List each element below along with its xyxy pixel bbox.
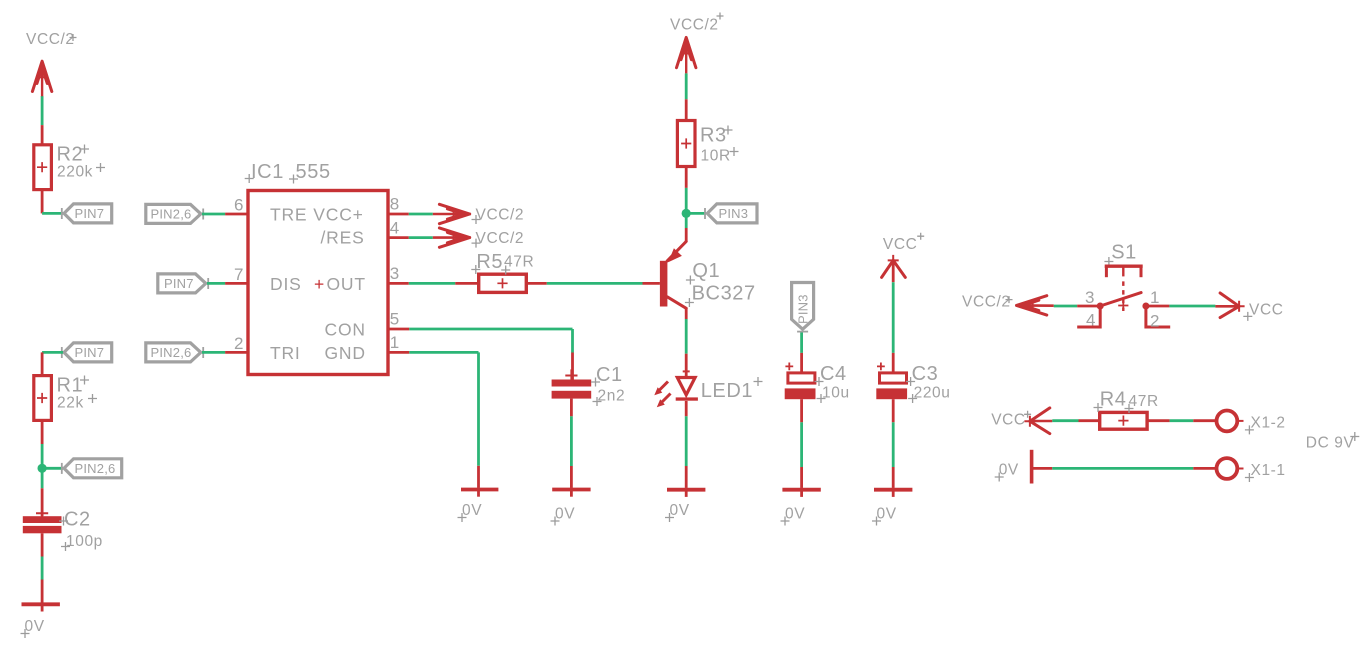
svg-text:0V: 0V <box>462 502 482 519</box>
wire R3 to Q1 with junction <box>685 167 688 242</box>
wire VCC arrow to R4 <box>1030 419 1100 422</box>
svg-text:PIN3: PIN3 <box>796 294 811 324</box>
wire pin 5 (CON) to C1 <box>409 329 572 380</box>
junction node PIN2,6 <box>38 464 47 473</box>
svg-text:VCC/2: VCC/2 <box>670 17 719 34</box>
svg-text:C3: C3 <box>912 363 939 385</box>
svg-text:8: 8 <box>390 195 400 214</box>
svg-text:220k: 220k <box>57 164 93 181</box>
wire C4 to ground <box>800 399 803 488</box>
IC1 555 body <box>248 191 388 375</box>
svg-text:3: 3 <box>390 264 400 283</box>
svg-text:0V: 0V <box>670 502 690 519</box>
resistor R3 <box>677 121 738 167</box>
svg-text:VCC/2: VCC/2 <box>26 31 75 48</box>
svg-text:1: 1 <box>390 333 400 352</box>
resistor R2 <box>34 144 105 190</box>
label PIN2,6 (net tag at pin 2) <box>146 343 203 362</box>
svg-text:PIN3: PIN3 <box>719 206 749 221</box>
capacitor C1 <box>552 364 626 406</box>
svg-text:10u: 10u <box>822 385 850 402</box>
wire VCC/2 to R2 <box>41 96 44 145</box>
svg-text:X1-2: X1-2 <box>1251 414 1286 431</box>
svg-text:22k: 22k <box>57 395 84 412</box>
svg-text:VCC/2: VCC/2 <box>476 230 525 247</box>
switch S1 name <box>1104 242 1136 266</box>
svg-text:R4: R4 <box>1100 389 1127 411</box>
pin 8 stub <box>388 195 409 215</box>
wire C2 to ground <box>41 533 44 602</box>
supply VCC arrow (left of R4) <box>991 408 1050 434</box>
label PIN2,6 (net tag, at junction) <box>62 459 122 478</box>
capacitor C2 <box>23 507 103 551</box>
ground 0V (under pin 1) <box>458 488 499 522</box>
label PIN3 (net tag at junction) <box>705 204 757 223</box>
wire tag to pin 6 <box>202 213 225 216</box>
pin 5 stub <box>388 310 409 330</box>
capacitor C4 (polarized) <box>785 363 850 404</box>
svg-text:CON: CON <box>325 319 366 339</box>
label PIN7 (net tag, top-left) <box>62 204 112 223</box>
supply VCC/2 arrow (pin 4) <box>439 228 524 248</box>
ground 0V (under C3) <box>872 488 912 526</box>
svg-text:PIN7: PIN7 <box>75 206 105 221</box>
wire R5 to Q1 base <box>526 282 660 285</box>
svg-text:VCC+: VCC+ <box>313 204 363 224</box>
svg-text:OUT: OUT <box>327 274 366 294</box>
svg-text:Q1: Q1 <box>692 260 720 282</box>
svg-text:6: 6 <box>234 196 244 215</box>
svg-text:4: 4 <box>1086 311 1096 330</box>
wire R1 to C2 with junction <box>41 420 44 516</box>
svg-text:BC327: BC327 <box>692 283 756 305</box>
svg-text:0V: 0V <box>555 506 575 523</box>
svg-text:PIN2,6: PIN2,6 <box>75 461 116 476</box>
pin 1 stub <box>388 333 409 352</box>
svg-text:100p: 100p <box>66 533 103 550</box>
supply 0V (left of X1-1 wire) <box>995 450 1032 484</box>
svg-text:PIN2,6: PIN2,6 <box>151 207 192 222</box>
svg-text:+: + <box>314 274 325 294</box>
svg-text:5: 5 <box>390 310 400 329</box>
svg-text:47R: 47R <box>504 254 534 271</box>
wire pin 8 to VCC/2 arrow <box>409 213 471 216</box>
connector X1 label DC 9V <box>1306 432 1360 452</box>
svg-text:VCC: VCC <box>1249 302 1284 319</box>
svg-text:X1-1: X1-1 <box>1251 462 1286 479</box>
svg-text:C2: C2 <box>64 509 91 531</box>
svg-text:0V: 0V <box>877 506 897 523</box>
svg-text:VCC/2: VCC/2 <box>476 207 525 224</box>
svg-text:DIS: DIS <box>270 274 302 294</box>
svg-text:C4: C4 <box>820 363 847 385</box>
svg-text:/RES: /RES <box>321 227 365 247</box>
wire R4 to X1-2 pad <box>1147 419 1216 422</box>
wire R2 to PIN7 tag <box>42 190 63 214</box>
svg-text:PIN7: PIN7 <box>164 276 194 291</box>
ground 0V (left column) <box>21 603 60 639</box>
capacitor C3 (polarized) <box>876 363 950 404</box>
svg-text:10R: 10R <box>701 148 731 165</box>
label PIN3 (vertical net tag above C4) <box>792 283 814 332</box>
svg-text:R1: R1 <box>57 375 84 397</box>
label PIN7 (net tag at pin 7) <box>158 274 208 293</box>
svg-text:VCC/2: VCC/2 <box>962 294 1011 311</box>
supply VCC/2 top-left <box>26 31 77 97</box>
svg-text:47R: 47R <box>1129 393 1159 410</box>
svg-text:4: 4 <box>390 219 400 238</box>
svg-text:2: 2 <box>1150 312 1160 331</box>
svg-text:VCC: VCC <box>883 236 918 253</box>
svg-text:TRE: TRE <box>270 204 307 224</box>
wire C1 to ground <box>570 399 573 488</box>
wire junction to PIN3 tag <box>686 212 706 215</box>
wire S1 pin 1 to VCC arrow <box>1146 305 1239 308</box>
svg-text:GND: GND <box>325 343 366 363</box>
svg-text:555: 555 <box>296 161 331 183</box>
op-amp/timer IC1 555 title <box>245 161 331 184</box>
supply VCC arrow (right of S1) <box>1220 293 1283 321</box>
svg-text:S1: S1 <box>1111 242 1137 264</box>
wire VCC/2 to R3 <box>685 73 688 120</box>
wire pin 3 to R5 <box>409 282 479 285</box>
wire Q1 collector to LED1 <box>685 308 688 380</box>
wire LED1 to ground <box>685 401 688 488</box>
svg-text:220u: 220u <box>914 385 951 402</box>
wire pin 4 to VCC/2 arrow <box>409 236 471 239</box>
supply VCC (above C3) <box>882 233 925 278</box>
svg-text:PIN7: PIN7 <box>75 345 105 360</box>
svg-text:C1: C1 <box>596 364 623 386</box>
ground 0V (under C4) <box>781 488 821 526</box>
wire S1 pin 3 to VCC/2 arrow <box>1054 305 1097 308</box>
svg-text:TRI: TRI <box>270 343 301 363</box>
svg-text:2n2: 2n2 <box>598 388 626 405</box>
transistor Q1 BC327 (PNP) <box>660 241 756 308</box>
wire tag to pin 2 <box>202 351 225 354</box>
svg-text:PIN2,6: PIN2,6 <box>151 345 192 360</box>
supply VCC/2 (above R3) <box>670 13 724 74</box>
svg-text:2: 2 <box>234 334 244 353</box>
resistor R4 <box>1094 389 1159 430</box>
wire PIN3 tag to C4 <box>800 333 803 373</box>
svg-text:0V: 0V <box>785 506 805 523</box>
label PIN2,6 (net tag at pin 6) <box>146 204 203 223</box>
pin 7 stub <box>225 265 248 284</box>
wire PIN7 tag to R1 <box>42 352 63 375</box>
pin 3 stub <box>388 264 409 283</box>
wire junction to PIN2,6 tag <box>42 467 63 470</box>
svg-text:1: 1 <box>1150 288 1160 307</box>
pin 2 stub <box>225 334 248 353</box>
wire tag to pin 7 <box>207 282 225 285</box>
svg-text:0V: 0V <box>25 618 45 635</box>
svg-text:IC1: IC1 <box>251 161 284 183</box>
wire C3 to ground <box>892 399 895 488</box>
label PIN7 (net tag, at R1 top) <box>62 343 112 362</box>
svg-text:LED1: LED1 <box>701 380 753 402</box>
ground 0V (under LED1) <box>665 488 705 522</box>
supply VCC/2 arrow (pin 8) <box>439 204 524 224</box>
switch S1 body <box>1077 266 1170 330</box>
svg-text:R5: R5 <box>476 251 503 273</box>
svg-text:R3: R3 <box>700 125 727 147</box>
connector pad X1-2 <box>1217 411 1286 435</box>
wire pin 1 (GND) to ground <box>409 352 478 487</box>
svg-text:3: 3 <box>1085 288 1095 307</box>
junction node PIN3 <box>682 209 691 218</box>
wire 0V to X1-1 pad <box>1032 467 1217 470</box>
svg-text:R2: R2 <box>57 144 84 166</box>
svg-text:VCC: VCC <box>991 412 1026 429</box>
resistor R1 <box>34 375 97 421</box>
svg-text:7: 7 <box>234 265 244 284</box>
supply VCC/2 arrow (left of S1) <box>962 294 1054 316</box>
LED LED1 <box>654 371 762 407</box>
wire VCC to C3 <box>892 260 895 373</box>
ground 0V (under C1) <box>551 488 591 526</box>
svg-text:0V: 0V <box>999 462 1019 479</box>
resistor R5 <box>471 251 534 292</box>
pin 6 stub <box>225 196 248 215</box>
pin 4 stub <box>388 219 409 238</box>
connector pad X1-1 <box>1217 458 1286 482</box>
svg-text:DC 9V: DC 9V <box>1306 435 1355 452</box>
